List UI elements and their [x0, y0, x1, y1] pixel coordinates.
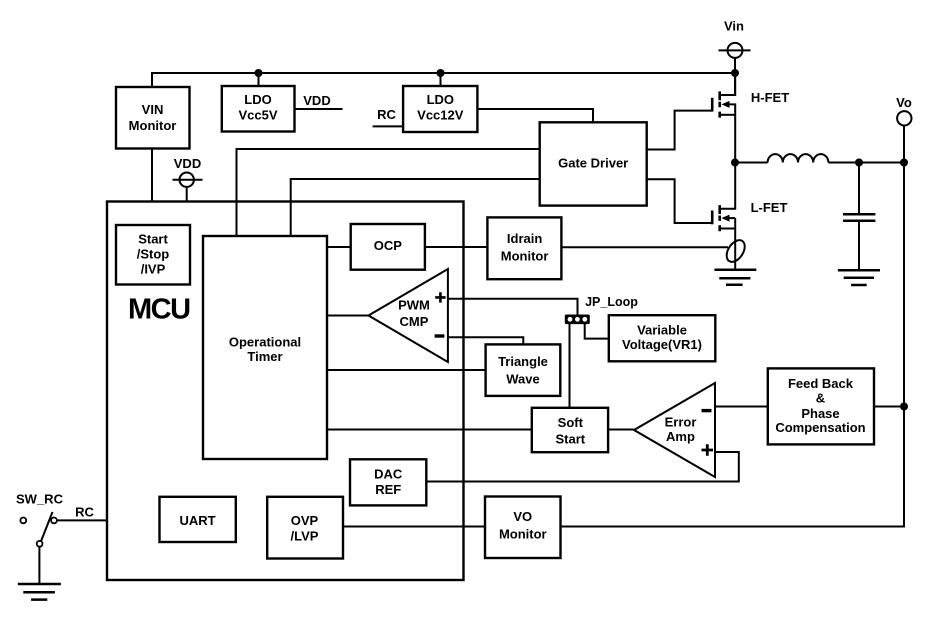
box Soft Start	[532, 408, 608, 452]
svg-text:/Stop: /Stop	[137, 247, 170, 262]
wire Error Amp plus input from DAC REF	[426, 452, 739, 482]
svg-text:JP_Loop: JP_Loop	[585, 295, 638, 309]
svg-text:Gate Driver: Gate Driver	[558, 156, 628, 171]
transistor H-FET	[712, 73, 735, 163]
svg-text:CMP: CMP	[400, 314, 429, 329]
svg-text:Error: Error	[665, 414, 697, 429]
svg-text:L-FET: L-FET	[751, 200, 788, 215]
wire stub top bus down to LDO Vcc5V	[258, 73, 260, 86]
box Feed Back & Phase Compensation	[768, 368, 874, 444]
svg-text:/IVP: /IVP	[141, 262, 166, 277]
switch SW_RC	[20, 512, 57, 547]
svg-text:LDO: LDO	[427, 92, 454, 107]
wire OCP to Idrain Monitor	[425, 246, 487, 248]
svg-text:RC: RC	[377, 107, 396, 122]
svg-text:OCP: OCP	[374, 238, 403, 253]
svg-text:VDD: VDD	[174, 156, 201, 171]
svg-text:VIN: VIN	[142, 102, 164, 117]
box MCU outline	[107, 202, 464, 581]
wire VIN Monitor down into MCU to Start/Stop/IVP	[151, 149, 153, 225]
wire RC input stub to LDO Vcc12V	[373, 125, 404, 127]
svg-text:Timer: Timer	[247, 349, 282, 364]
wire LDO Vcc12V output to Gate Driver top	[477, 109, 593, 122]
box Triangle Wave	[486, 344, 561, 396]
Vo terminal circle	[897, 111, 911, 125]
box Operational Timer	[203, 236, 327, 459]
wire Feed Back output to Vo column	[874, 406, 904, 408]
wire Operational Timer to OCP	[327, 246, 351, 248]
svg-text:Wave: Wave	[506, 371, 539, 386]
box Variable Voltage (VR1)	[609, 315, 716, 361]
wire Gate Driver input 1 from MCU	[237, 149, 540, 236]
current sense loop on L-FET source	[723, 237, 748, 265]
box DAC REF	[350, 459, 426, 505]
wire inductor to Vo node	[828, 162, 904, 164]
wire Gate Driver output to L-FET gate	[647, 179, 713, 223]
svg-text:Vin: Vin	[724, 19, 744, 34]
wire Vo column down to feedback tap	[903, 163, 905, 407]
wire top bus from VIN Monitor to Vin node	[152, 72, 735, 74]
transistor L-FET	[712, 163, 735, 232]
wire Gate Driver input 2 from MCU	[291, 179, 540, 236]
svg-text:SW_RC: SW_RC	[16, 491, 64, 506]
wire switch node to inductor	[735, 162, 768, 164]
box LDO Vcc5V	[222, 86, 295, 132]
ground under switch	[18, 584, 61, 600]
svg-text:REF: REF	[375, 482, 401, 497]
op-amp Error Amp	[634, 383, 715, 477]
node junction dot at LDO Vcc12V tap	[437, 69, 445, 77]
svg-text:Triangle: Triangle	[498, 354, 548, 369]
wire VO Monitor to OVP/LVP	[343, 526, 485, 528]
wire Idrain Monitor to current sense loop	[562, 246, 728, 248]
svg-text:Feed Back: Feed Back	[788, 376, 854, 391]
ground under output capacitor	[838, 270, 880, 285]
svg-text:Start: Start	[138, 232, 168, 247]
wire Vo column down to VO Monitor	[561, 407, 905, 527]
svg-text:H-FET: H-FET	[751, 90, 789, 105]
svg-text:Voltage(VR1): Voltage(VR1)	[622, 337, 702, 352]
box Gate Driver	[540, 122, 647, 205]
capacitor C1 output	[843, 163, 875, 271]
wire Vo stem	[903, 126, 905, 163]
wire switch to ground	[38, 547, 40, 584]
svg-text:PWM: PWM	[398, 297, 430, 312]
wire PWM CMP plus input to JP_Loop jumper	[448, 299, 578, 315]
svg-text:RC: RC	[75, 505, 94, 520]
svg-text:Variable: Variable	[637, 323, 687, 338]
svg-text:/LVP: /LVP	[291, 529, 319, 544]
svg-text:VDD: VDD	[303, 93, 330, 108]
node switch node dot	[731, 159, 739, 167]
svg-text:Compensation: Compensation	[775, 420, 865, 435]
svg-text:Monitor: Monitor	[499, 526, 547, 541]
ground under L-FET	[714, 270, 756, 285]
node junction dot at LDO Vcc5V tap	[255, 69, 263, 77]
svg-text:OVP: OVP	[291, 513, 319, 528]
box VO Monitor	[485, 497, 561, 559]
svg-text:Monitor: Monitor	[501, 248, 549, 263]
wire switch to MCU RC input	[57, 519, 107, 521]
wire VDD stem into MCU	[186, 187, 188, 202]
node Vo column tap dot	[900, 159, 908, 167]
svg-text:VO: VO	[513, 509, 532, 524]
svg-text:Amp: Amp	[666, 429, 695, 444]
node output cap tap dot	[855, 159, 863, 167]
jumper JP_Loop	[565, 315, 590, 325]
wire Gate Driver output to H-FET gate	[647, 111, 713, 150]
box LDO Vcc12V	[403, 86, 477, 132]
box Start/Stop/IVP	[116, 225, 190, 285]
svg-text:DAC: DAC	[374, 467, 403, 482]
wire Soft Start to Error Amp output	[609, 429, 635, 431]
wire Operational Timer to Soft Start	[327, 429, 533, 431]
wire JP_Loop jumper to Variable Voltage	[585, 324, 609, 339]
svg-text:Operational: Operational	[229, 335, 301, 350]
wire Operational Timer to PWM CMP apex	[327, 315, 369, 317]
svg-text:Vcc5V: Vcc5V	[238, 108, 277, 123]
box UART	[160, 497, 236, 542]
svg-text:MCU: MCU	[128, 294, 190, 326]
svg-text:Monitor: Monitor	[129, 118, 177, 133]
node junction dot at Vin tap	[731, 69, 739, 77]
svg-text:Vcc12V: Vcc12V	[417, 108, 464, 123]
box VIN Monitor	[116, 87, 190, 149]
wire Operational Timer to Triangle Wave	[327, 369, 486, 371]
svg-text:Vo: Vo	[896, 95, 912, 110]
VDD terminal circle with bar	[173, 173, 203, 187]
svg-text:Idrain: Idrain	[507, 231, 542, 246]
wire JP_Loop jumper down to Soft Start	[569, 324, 571, 407]
wire L-FET source to ground	[734, 218, 736, 270]
wire stub top bus down to VIN Monitor	[151, 72, 153, 87]
svg-text:LDO: LDO	[244, 92, 271, 107]
svg-text:UART: UART	[179, 513, 215, 528]
wire PWM CMP minus input to Triangle Wave	[448, 337, 523, 344]
box Idrain Monitor	[487, 217, 561, 279]
wire Vin stem down to H-FET drain	[734, 58, 736, 94]
node feedback tap dot on Vo column	[900, 403, 908, 411]
wire Error Amp minus input from Feed Back	[715, 406, 767, 408]
svg-text:Soft: Soft	[558, 415, 584, 430]
svg-text:Start: Start	[555, 432, 585, 447]
wire stub top bus down to LDO Vcc12V	[440, 73, 442, 86]
svg-text:&: &	[816, 391, 825, 406]
inductor L1	[768, 154, 829, 162]
op-amp PWM CMP comparator	[369, 269, 448, 362]
wire LDO Vcc5V output stub	[295, 108, 343, 110]
box OCP	[351, 224, 425, 270]
svg-text:Phase: Phase	[801, 406, 839, 421]
box OVP/LVP	[267, 497, 343, 559]
Vin terminal circle with bar	[719, 43, 751, 58]
